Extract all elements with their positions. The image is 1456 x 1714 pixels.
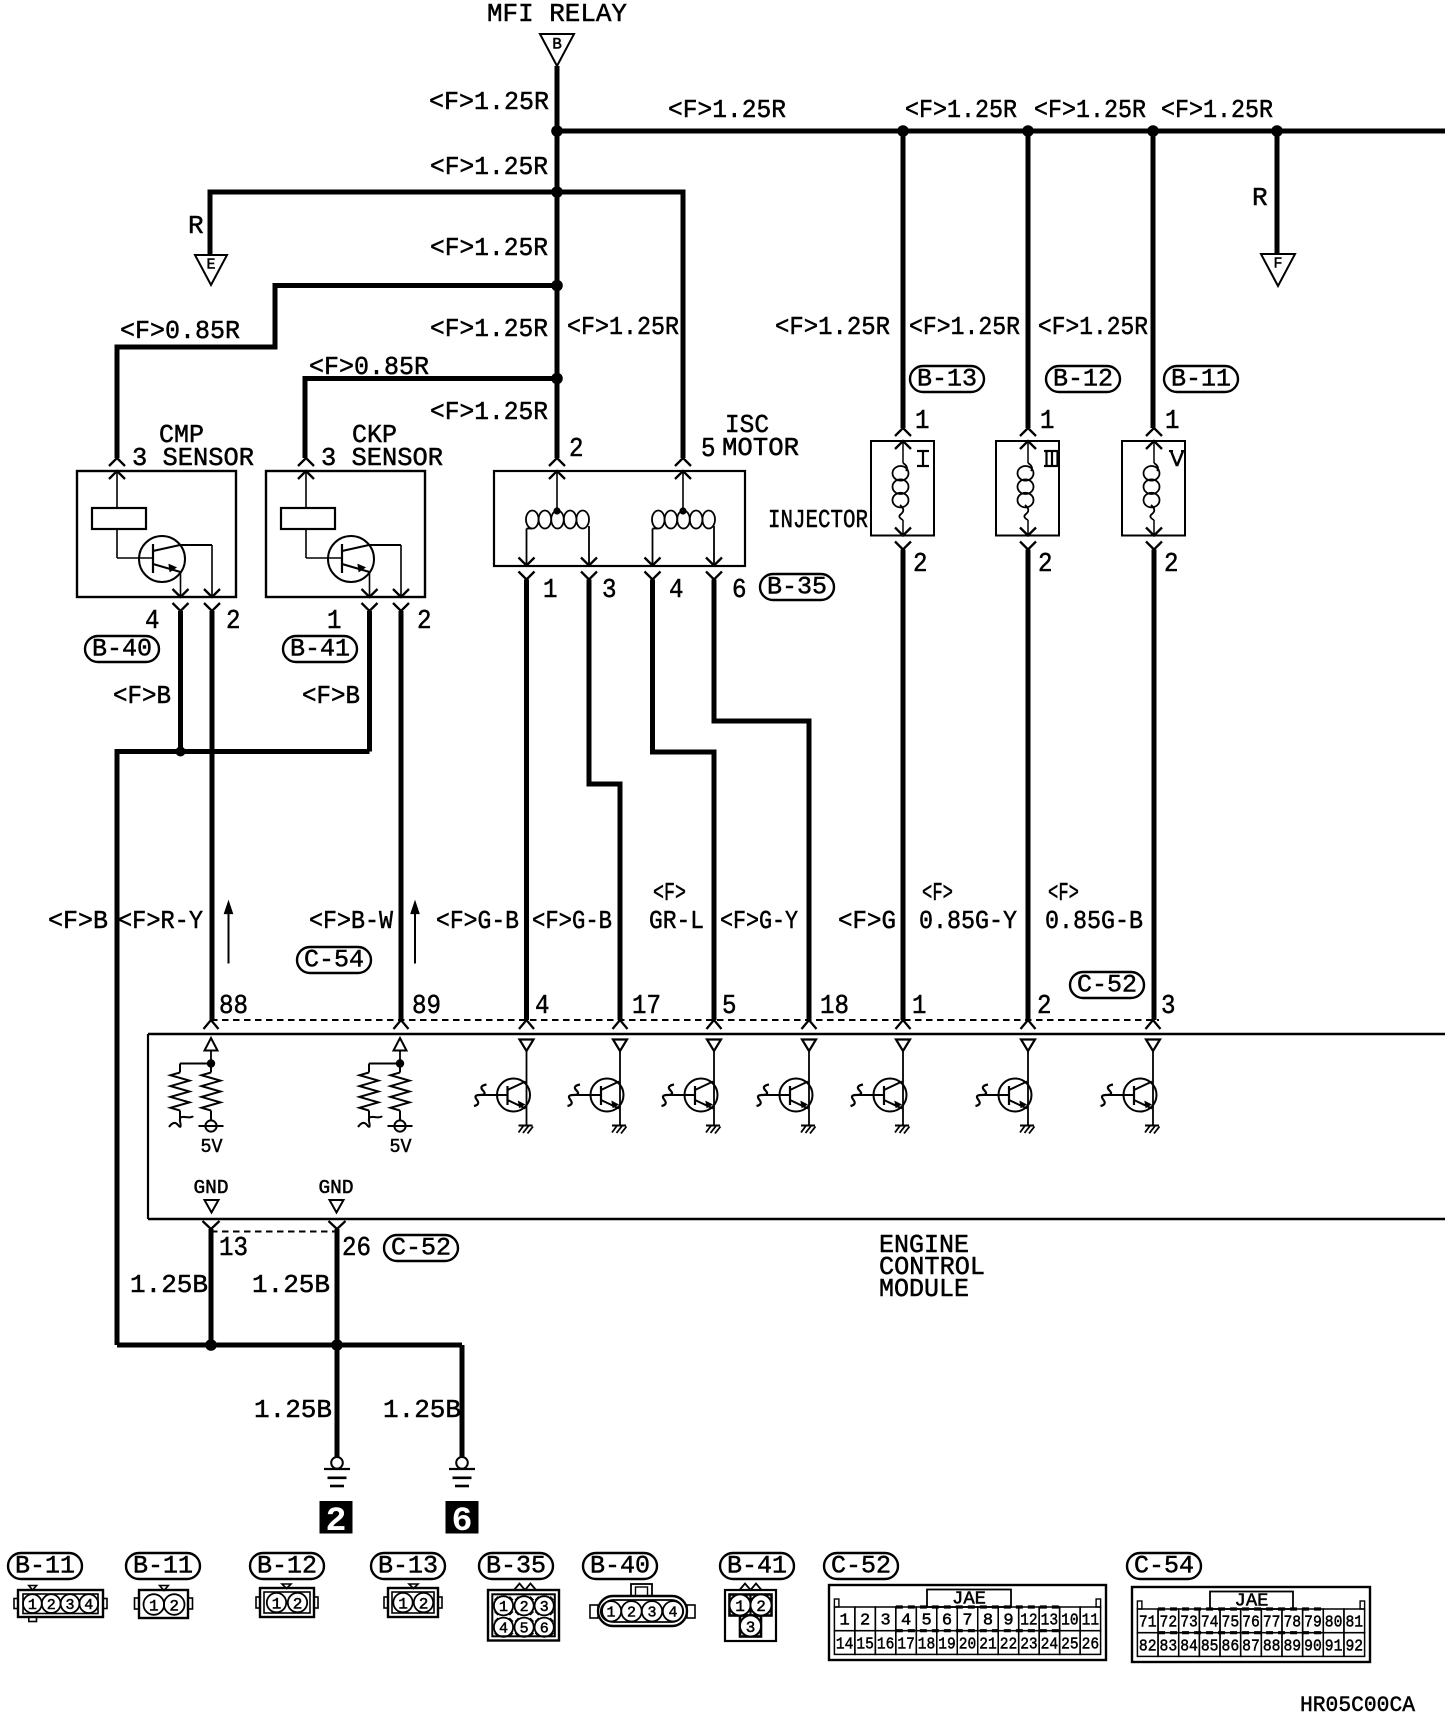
svg-text:5V: 5V: [201, 1136, 224, 1158]
svg-text:2: 2: [419, 1595, 429, 1613]
svg-text:1: 1: [912, 992, 927, 1022]
CMP pin 2 wire (F)R-Y to ECM 88: [210, 611, 215, 1020]
main power bus wire: [557, 129, 1445, 134]
svg-text:2: 2: [326, 1503, 347, 1541]
ECM ground pin dashed line: [211, 1231, 337, 1233]
svg-text:76: 76: [1242, 1614, 1260, 1633]
svg-text:<F>1.25R: <F>1.25R: [430, 152, 548, 182]
connector B-12 pinout: [250, 1552, 324, 1618]
connector label C-52: [384, 1235, 458, 1261]
injector I box: [871, 441, 934, 536]
svg-text:C-52: C-52: [391, 1234, 451, 1263]
svg-text:3: 3: [1161, 992, 1176, 1022]
ground reference numeral 6: [446, 1501, 479, 1534]
chassis ground symbol 6: [456, 1457, 468, 1469]
CKP pin 3 entry arrow: [298, 458, 314, 466]
branch wire to CMP sensor pin 3: [117, 286, 557, 459]
ground wire from pin 26: [335, 1229, 340, 1345]
svg-text:<F>0.85R: <F>0.85R: [120, 316, 240, 346]
svg-text:87: 87: [1242, 1637, 1260, 1656]
svg-text:HR05C00CA: HR05C00CA: [1300, 1693, 1416, 1714]
svg-text:6: 6: [732, 576, 747, 606]
svg-text:83: 83: [1160, 1637, 1178, 1656]
svg-text:1: 1: [499, 1599, 508, 1616]
connector B-41 pinout: [720, 1552, 794, 1642]
svg-text:1: 1: [149, 1597, 159, 1615]
svg-text:72: 72: [1160, 1614, 1178, 1633]
svg-text:2: 2: [417, 607, 432, 637]
svg-text:9: 9: [1003, 1612, 1013, 1631]
svg-text:3 SENSOR: 3 SENSOR: [321, 443, 443, 473]
ECM pin 13 exit caret: [203, 1221, 220, 1229]
svg-text:1: 1: [1040, 407, 1055, 437]
CKP sensor box: [266, 471, 425, 597]
entry arrow pin 1: [1020, 428, 1036, 436]
junction main/CMP branch: [551, 280, 563, 292]
svg-text:23: 23: [1020, 1635, 1037, 1654]
svg-text:5: 5: [722, 992, 737, 1022]
svg-text:4: 4: [901, 1612, 911, 1631]
signal direction arrow: [228, 905, 230, 964]
ECM driver transistor for pin wire x=1028: [976, 1040, 1036, 1134]
ECM pin 17 entry caret: [613, 1020, 628, 1029]
injector cylinder numeral V: [1171, 451, 1177, 466]
connector label B-11: [1164, 366, 1238, 392]
svg-text:<F>1.25R: <F>1.25R: [668, 95, 786, 125]
injector coil: [1153, 441, 1155, 463]
connector label B-12: [1046, 366, 1120, 392]
svg-text:MODULE: MODULE: [879, 1274, 969, 1304]
connector B-40 pinout: [583, 1552, 695, 1627]
ISC coil A: [556, 471, 558, 511]
svg-text:17: 17: [632, 992, 661, 1022]
svg-text:1: 1: [272, 1595, 282, 1613]
exit arrow pin 2: [1146, 528, 1162, 536]
CKP pin 1 wire (F)B: [367, 611, 372, 752]
svg-text:18: 18: [918, 1635, 935, 1654]
svg-text:2: 2: [913, 550, 928, 580]
sensor output transistor: [139, 536, 185, 582]
svg-text:92: 92: [1345, 1637, 1363, 1656]
svg-text:B-12: B-12: [1053, 365, 1113, 394]
ISC coil B: [682, 471, 684, 511]
svg-text:2: 2: [860, 1612, 870, 1631]
ECM driver transistor for pin wire x=809: [757, 1040, 817, 1134]
connector label B-35: [760, 574, 834, 600]
ISC pin 4 wire (F)GR-L to ECM 5: [653, 580, 715, 1021]
svg-text:<F>B-W: <F>B-W: [309, 906, 393, 936]
svg-text:2: 2: [226, 607, 241, 637]
svg-text:1: 1: [840, 1612, 850, 1631]
ISC pin 2 entry arrow: [549, 458, 565, 466]
svg-text:91: 91: [1325, 1637, 1343, 1656]
exit arrow pin 2: [895, 528, 911, 536]
ECM driver transistor for pin wire x=620: [568, 1040, 628, 1134]
ECM pin 4 entry caret: [519, 1020, 534, 1029]
svg-text:5: 5: [701, 435, 716, 465]
ECM driver transistor for pin wire x=1153: [1101, 1040, 1161, 1134]
svg-text:<F>G: <F>G: [838, 906, 896, 936]
ECM pin 88 entry caret: [204, 1020, 219, 1029]
svg-text:B-41: B-41: [290, 635, 350, 664]
svg-text:10: 10: [1061, 1612, 1078, 1631]
injector output wire: [1152, 550, 1157, 1021]
svg-text:<F>1.25R: <F>1.25R: [1161, 95, 1273, 125]
ECM driver transistor for pin wire x=526.5: [474, 1040, 534, 1134]
sensor ground link wire: [117, 752, 370, 1346]
junction main/branch E: [551, 186, 563, 198]
svg-text:<F>B: <F>B: [48, 906, 108, 936]
svg-text:<F>B: <F>B: [302, 681, 360, 711]
CMP pin 3 entry arrow: [109, 458, 125, 466]
connector label C-52: [1070, 972, 1144, 998]
svg-text:2: 2: [169, 1597, 179, 1615]
ground triangle E: [195, 255, 227, 285]
svg-text:B-40: B-40: [590, 1552, 650, 1581]
svg-text:4: 4: [669, 576, 684, 606]
svg-text:B-40: B-40: [92, 635, 152, 664]
injector V box: [1122, 441, 1185, 536]
injector feed wire x=1153: [1151, 131, 1156, 428]
injector feed wire x=903: [901, 131, 906, 428]
svg-text:26: 26: [1082, 1635, 1099, 1654]
ground wire from pin 13: [209, 1229, 214, 1345]
svg-text:F: F: [1273, 256, 1282, 273]
svg-text:<F>: <F>: [653, 878, 686, 908]
C-54 JAE maker box: [1210, 1592, 1293, 1610]
ECM pin row dashed connector line: [211, 1019, 1159, 1021]
injector cylinder numeral I: [917, 450, 929, 452]
svg-text:2: 2: [569, 435, 584, 465]
svg-text:1: 1: [735, 1598, 745, 1616]
wire to ground triangle F: [1275, 131, 1280, 254]
svg-text:3 SENSOR: 3 SENSOR: [132, 443, 254, 473]
main vertical feed wire to ISC pin 2: [555, 131, 560, 458]
CKP pin 1 exit arrow: [362, 589, 378, 597]
CKP pin 2 exit arrow: [393, 589, 409, 597]
svg-text:B-13: B-13: [378, 1552, 438, 1581]
svg-text:1: 1: [1165, 407, 1180, 437]
svg-text:11: 11: [1082, 1612, 1099, 1631]
svg-text:17: 17: [897, 1635, 914, 1654]
svg-text:24: 24: [1041, 1635, 1058, 1654]
svg-text:90: 90: [1304, 1637, 1322, 1656]
svg-text:4: 4: [84, 1597, 93, 1614]
svg-text:R: R: [1252, 183, 1268, 213]
ISC pin 1 wire (F)G-B to ECM 4: [524, 580, 529, 1021]
sensor output transistor: [328, 536, 374, 582]
svg-text:<F>1.25R: <F>1.25R: [430, 314, 548, 344]
svg-text:<F>G-B: <F>G-B: [436, 906, 519, 936]
signal direction arrow: [414, 905, 416, 964]
svg-text:B-12: B-12: [257, 1552, 317, 1581]
svg-text:21: 21: [979, 1635, 996, 1654]
svg-text:5: 5: [921, 1612, 931, 1631]
svg-text:8: 8: [983, 1612, 993, 1631]
ENGINE CONTROL MODULE box: [148, 1033, 1445, 1036]
svg-text:B-11: B-11: [133, 1552, 193, 1581]
connector label B-40: [85, 636, 159, 662]
branch wire to CKP sensor pin 3: [305, 379, 557, 459]
svg-text:B-35: B-35: [767, 573, 827, 602]
svg-text:1.25B: 1.25B: [252, 1270, 330, 1300]
injector output wire: [1026, 550, 1031, 1021]
svg-text:R: R: [188, 211, 204, 241]
svg-text:13: 13: [219, 1234, 248, 1264]
connector label C-54: [297, 947, 371, 973]
ECM pin 3 entry caret: [1146, 1020, 1161, 1029]
svg-text:80: 80: [1325, 1614, 1343, 1633]
exit arrow pin 2: [1020, 528, 1036, 536]
connector B-35 pinout: [479, 1552, 559, 1641]
svg-text:<F>1.25R: <F>1.25R: [567, 312, 679, 342]
svg-text:88: 88: [219, 992, 248, 1022]
svg-text:3: 3: [65, 1597, 74, 1614]
ISC pin 3 wire (F)G-B to ECM 17: [589, 580, 620, 1021]
svg-text:73: 73: [1180, 1614, 1198, 1633]
svg-text:86: 86: [1222, 1637, 1240, 1656]
svg-text:77: 77: [1263, 1614, 1281, 1633]
svg-text:<F>: <F>: [922, 878, 953, 908]
svg-text:7: 7: [962, 1612, 972, 1631]
svg-text:B-11: B-11: [15, 1552, 75, 1581]
ECM pin 1 entry caret: [896, 1020, 911, 1029]
ground triangle F: [1261, 254, 1295, 286]
svg-text:6: 6: [942, 1612, 952, 1631]
wire from triangle B down to bus: [555, 66, 560, 131]
svg-text:1: 1: [543, 576, 558, 606]
svg-text:5V: 5V: [390, 1136, 413, 1158]
svg-text:89: 89: [412, 992, 441, 1022]
svg-text:3: 3: [540, 1599, 549, 1616]
svg-text:2: 2: [1037, 992, 1052, 1022]
svg-text:2: 2: [520, 1599, 529, 1616]
svg-text:1.25B: 1.25B: [383, 1395, 461, 1425]
svg-text:15: 15: [856, 1635, 873, 1654]
ground bus wire: [117, 1343, 462, 1348]
ground reference numeral 2: [320, 1501, 353, 1534]
connector C-52 pinout: [824, 1552, 1106, 1661]
ECM input pull-up network for pin wire x=211: [169, 1038, 224, 1158]
svg-text:1: 1: [398, 1595, 408, 1613]
ISC pin 1 exit arrow: [519, 558, 535, 566]
junction CMP pin4 / ground link: [176, 747, 186, 757]
svg-text:1: 1: [28, 1597, 37, 1614]
svg-text:<F>R-Y: <F>R-Y: [118, 906, 203, 936]
CMP pin 4 exit arrow: [173, 589, 189, 597]
svg-text:<F>1.25R: <F>1.25R: [1038, 312, 1148, 342]
CMP pin 2 exit arrow: [204, 589, 220, 597]
junction main/CKP branch: [551, 373, 563, 385]
svg-text:26: 26: [342, 1234, 371, 1264]
injector cylinder numeral III: [1044, 450, 1060, 452]
connector B-11 (2 pin) pinout: [126, 1552, 200, 1619]
svg-text:<F>1.25R: <F>1.25R: [429, 87, 549, 117]
ISC motor box: [494, 471, 745, 566]
svg-text:25: 25: [1061, 1635, 1078, 1654]
ECM pin 26 exit caret: [329, 1221, 346, 1229]
ECM pin 2 entry caret: [1021, 1020, 1036, 1029]
svg-text:1: 1: [327, 607, 342, 637]
svg-text:4: 4: [145, 607, 160, 637]
pickup coil element: [92, 508, 146, 529]
svg-text:20: 20: [959, 1635, 976, 1654]
connector B-13 pinout: [371, 1552, 445, 1618]
ISC pin 6 exit arrow: [706, 558, 722, 566]
CKP pin 2 wire (F)B-W to ECM 89: [399, 611, 404, 1020]
ECM driver transistor for pin wire x=714: [662, 1040, 722, 1134]
svg-text:2: 2: [627, 1605, 636, 1622]
svg-text:4: 4: [535, 992, 550, 1022]
svg-text:<F>1.25R: <F>1.25R: [909, 312, 1020, 342]
injector coil: [902, 441, 904, 463]
svg-text:<F>1.25R: <F>1.25R: [905, 95, 1017, 125]
svg-text:6: 6: [540, 1621, 549, 1638]
svg-text:3: 3: [602, 576, 617, 606]
svg-text:89: 89: [1283, 1637, 1301, 1656]
svg-text:5: 5: [520, 1621, 529, 1638]
svg-text:79: 79: [1304, 1614, 1322, 1633]
svg-text:74: 74: [1201, 1614, 1219, 1633]
junction ground bus / pin13: [205, 1339, 217, 1351]
svg-text:<F>1.25R: <F>1.25R: [775, 312, 890, 342]
svg-text:GR-L: GR-L: [649, 906, 704, 936]
svg-text:<F>0.85R: <F>0.85R: [309, 352, 429, 382]
svg-text:88: 88: [1263, 1637, 1281, 1656]
svg-text:2: 2: [1164, 550, 1179, 580]
injector output wire: [901, 550, 906, 1021]
CMP pin 4 wire (F)B: [178, 611, 183, 752]
connector label B-13: [910, 366, 984, 392]
svg-text:81: 81: [1345, 1614, 1363, 1633]
svg-text:<F>1.25R: <F>1.25R: [430, 397, 548, 427]
svg-text:22: 22: [1000, 1635, 1017, 1654]
entry arrow pin 1: [895, 428, 911, 436]
svg-text:2: 2: [47, 1597, 56, 1614]
CMP sensor box: [77, 471, 236, 597]
injector coil: [1027, 441, 1029, 463]
ground drop wire 6: [460, 1345, 465, 1457]
svg-text:C-54: C-54: [1134, 1552, 1194, 1581]
injector III box: [996, 441, 1059, 536]
svg-text:<F>G-Y: <F>G-Y: [720, 906, 798, 936]
injector feed wire x=1028: [1026, 131, 1031, 428]
svg-text:16: 16: [877, 1635, 894, 1654]
svg-text:1.25B: 1.25B: [254, 1395, 332, 1425]
svg-text:2: 2: [756, 1598, 766, 1616]
svg-text:78: 78: [1283, 1614, 1301, 1633]
svg-text:82: 82: [1139, 1637, 1157, 1656]
svg-text:14: 14: [836, 1635, 853, 1654]
connector B-11 (4 pin) pinout: [8, 1552, 107, 1622]
ISC pin 5 entry arrow: [675, 458, 691, 466]
svg-text:3: 3: [746, 1619, 756, 1637]
svg-text:<F>1.25R: <F>1.25R: [430, 233, 548, 263]
ISC pin 4 exit arrow: [645, 558, 661, 566]
junction bus/main vertical: [551, 125, 563, 137]
ECM pin 18 entry caret: [802, 1020, 817, 1029]
svg-text:85: 85: [1201, 1637, 1219, 1656]
connector C-54 pinout: [1127, 1552, 1370, 1663]
svg-text:18: 18: [820, 992, 849, 1022]
svg-text:1: 1: [915, 407, 930, 437]
GND triangle 2: [330, 1200, 344, 1213]
svg-text:84: 84: [1180, 1637, 1198, 1656]
ECM input pull-up network for pin wire x=400: [358, 1038, 413, 1158]
svg-text:C-52: C-52: [831, 1552, 891, 1581]
svg-text:3: 3: [647, 1605, 656, 1622]
svg-text:3: 3: [880, 1612, 890, 1631]
svg-text:6: 6: [452, 1503, 473, 1541]
svg-text:B: B: [552, 36, 562, 54]
svg-text:71: 71: [1139, 1614, 1157, 1633]
svg-text:B-13: B-13: [917, 365, 977, 394]
connector label B-41: [283, 636, 357, 662]
branch wire to ground triangle E and ISC pin 5: [210, 192, 683, 458]
svg-text:1.25B: 1.25B: [130, 1270, 208, 1300]
svg-text:MOTOR: MOTOR: [722, 433, 799, 463]
power source triangle B (from MFI relay): [540, 34, 574, 66]
svg-text:<F>1.25R: <F>1.25R: [1034, 95, 1146, 125]
ground drop wire 2: [335, 1345, 340, 1457]
svg-text:1: 1: [606, 1605, 615, 1622]
svg-text:2: 2: [293, 1595, 303, 1613]
pickup coil element: [281, 508, 335, 529]
svg-text:12: 12: [1020, 1612, 1037, 1631]
GND triangle 1: [205, 1200, 219, 1213]
svg-text:B-41: B-41: [727, 1552, 787, 1581]
svg-text:C-52: C-52: [1077, 971, 1137, 1000]
svg-text:0.85G-B: 0.85G-B: [1045, 906, 1143, 936]
svg-text:GND: GND: [194, 1177, 229, 1199]
svg-text:B-35: B-35: [486, 1552, 546, 1581]
ECM driver transistor for pin wire x=903: [851, 1040, 911, 1134]
svg-text:4: 4: [668, 1605, 677, 1622]
svg-text:75: 75: [1222, 1614, 1240, 1633]
ISC pin 6 wire (F)G-Y to ECM 18: [714, 580, 809, 1021]
svg-text:19: 19: [938, 1635, 955, 1654]
svg-text:INJECTOR: INJECTOR: [768, 505, 868, 535]
ECM pin 89 entry caret: [394, 1020, 409, 1029]
chassis ground symbol 2: [331, 1457, 343, 1469]
svg-text:0.85G-Y: 0.85G-Y: [919, 906, 1017, 936]
svg-text:<F>B: <F>B: [113, 681, 171, 711]
ISC pin 3 exit arrow: [581, 558, 597, 566]
svg-text:13: 13: [1041, 1612, 1058, 1631]
svg-text:4: 4: [499, 1621, 508, 1638]
svg-text:C-54: C-54: [304, 946, 364, 975]
svg-text:GND: GND: [319, 1177, 354, 1199]
svg-text:<F>G-B: <F>G-B: [532, 906, 612, 936]
entry arrow pin 1: [1146, 428, 1162, 436]
ECM pin 5 entry caret: [707, 1020, 722, 1029]
C-52 JAE maker box: [927, 1590, 1011, 1608]
junction ground bus / pin26: [331, 1339, 343, 1351]
svg-text:MFI RELAY: MFI RELAY: [487, 0, 627, 29]
svg-text:B-11: B-11: [1171, 365, 1231, 394]
svg-text:E: E: [206, 257, 215, 274]
svg-text:<F>: <F>: [1048, 878, 1079, 908]
svg-text:2: 2: [1038, 550, 1053, 580]
